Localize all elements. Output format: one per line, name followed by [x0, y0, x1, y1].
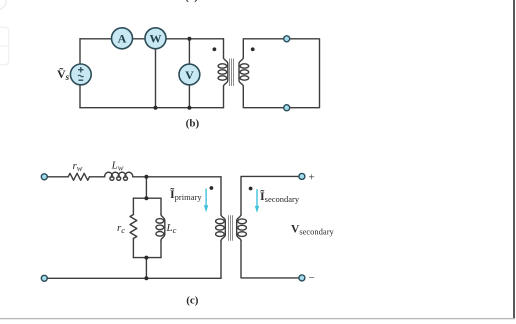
wire (c) shunt box top [133, 197, 161, 199]
svg-text:+: + [309, 172, 315, 184]
wattmeter W (b) [145, 28, 166, 49]
inductor (c) transformer primary winding [216, 215, 226, 241]
junction voltmeter branch bottom [187, 106, 191, 110]
wire (b) wattmeter voltage lead [155, 45, 157, 108]
resistor rc [130, 215, 137, 239]
current arrow I primary [204, 189, 208, 213]
junction node top rail [144, 175, 148, 179]
wire (c) bottom rail [48, 277, 222, 279]
wire (b) primary loop left [79, 39, 81, 108]
svg-text:(a): (a) [185, 0, 198, 3]
polarity dot (b) secondary [251, 47, 255, 51]
junction shunt bottom [144, 256, 148, 260]
terminal (b) secondary top [284, 36, 290, 42]
terminal (c) input top [41, 174, 47, 180]
svg-text:(b): (b) [186, 117, 200, 129]
junction shunt top [144, 196, 148, 200]
wire (c) secondary top [241, 176, 299, 214]
page ghost control box [0, 27, 9, 65]
wire (b) primary right leads [223, 39, 225, 108]
wire (b) secondary loop [243, 39, 319, 108]
svg-text:Ĩsecondary: Ĩsecondary [260, 189, 300, 204]
resistor rw [68, 173, 89, 180]
polarity dot (c) primary [210, 186, 214, 190]
terminal (c) input bottom [41, 275, 47, 281]
wire (c) top rail segment 3 [133, 176, 221, 178]
svg-text:rc: rc [117, 222, 125, 235]
terminal (c) output minus [299, 275, 305, 281]
wire (c) Lc leads [160, 198, 162, 257]
polarity dot (c) secondary [249, 187, 253, 191]
wire (c) secondary bottom [241, 241, 299, 278]
page corner ghost top-left [0, 0, 6, 9]
wire (c) top rail segment 2 [90, 176, 105, 178]
svg-text:V: V [185, 68, 194, 82]
wire (c) shunt branch lower [145, 258, 147, 279]
wire (c) shunt box bottom [133, 257, 161, 259]
wire (c) shunt branch upper [145, 177, 147, 198]
wire (b) voltmeter branch [188, 39, 190, 108]
transformer core (c) [229, 215, 233, 241]
page bottom rule [0, 318, 515, 320]
terminal (b) secondary bottom [284, 105, 290, 111]
polarity dot (b) primary [213, 47, 217, 51]
svg-text:Vsecondary: Vsecondary [291, 224, 335, 237]
wire (b) primary loop bottom [80, 107, 224, 109]
source Vs (b) [70, 64, 91, 85]
svg-text:(c): (c) [186, 294, 199, 306]
svg-text:rw: rw [73, 160, 83, 173]
junction top of voltmeter branch [187, 37, 191, 41]
terminal (c) output plus [299, 173, 305, 179]
svg-text:A: A [118, 32, 127, 46]
svg-text:−: − [309, 272, 315, 284]
transformer core (b) [230, 59, 234, 87]
junction node bottom rail [144, 276, 148, 280]
inductor (c) transformer secondary winding [237, 215, 247, 241]
inductor (b) transformer primary winding [218, 58, 228, 86]
svg-text:Ṽs: Ṽs [57, 67, 70, 82]
svg-text:Lw: Lw [111, 160, 124, 173]
svg-text:Ĩprimary: Ĩprimary [170, 187, 202, 202]
junction wattmeter lead bottom [154, 106, 158, 110]
inductor (b) transformer secondary winding [239, 58, 249, 86]
wire (c) top rail segment 1 [48, 176, 69, 178]
inductor Lc [156, 215, 165, 241]
wire (b) primary loop top [80, 38, 224, 40]
wire (c) rc leads [132, 198, 134, 257]
inductor Lw [105, 172, 133, 180]
current arrow I secondary [255, 189, 259, 213]
ammeter A (b) [112, 28, 133, 49]
svg-text:W: W [150, 32, 162, 46]
wire (c) primary right leads [220, 177, 222, 278]
svg-text:Lc: Lc [166, 222, 177, 235]
page right border [513, 0, 515, 319]
voltmeter V (b) [179, 64, 200, 85]
